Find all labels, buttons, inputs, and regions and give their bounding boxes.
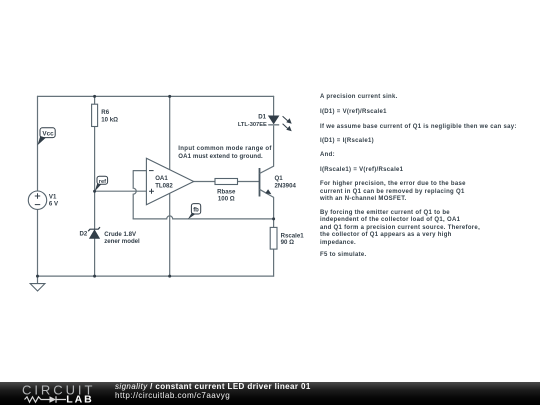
svg-text:TL082: TL082 [155,182,173,189]
svg-text:6 V: 6 V [49,200,59,207]
svg-text:100 Ω: 100 Ω [218,196,235,203]
svg-text:R6: R6 [101,109,109,116]
svg-text:Crude 1.8V: Crude 1.8V [104,231,137,238]
svg-text:Vcc: Vcc [42,130,54,137]
svg-text:V1: V1 [49,193,57,200]
svg-text:OA1: OA1 [155,175,168,182]
svg-text:D1: D1 [258,114,266,121]
svg-text:10 kΩ: 10 kΩ [101,117,118,124]
svg-text:LAB: LAB [66,394,94,405]
svg-text:fb: fb [193,207,199,213]
svg-text:LTL-307EE: LTL-307EE [238,122,267,128]
svg-text:Q1: Q1 [275,175,284,182]
svg-text:D2: D2 [80,230,88,237]
svg-text:Input common mode range of: Input common mode range of [178,145,272,152]
svg-text:zener model: zener model [104,238,140,245]
svg-text:ref: ref [99,179,106,185]
svg-text:90 Ω: 90 Ω [281,239,294,246]
svg-text:2N3904: 2N3904 [275,182,297,189]
svg-text:Rbase: Rbase [217,188,236,195]
svg-text:OA1 must extend to ground.: OA1 must extend to ground. [178,153,263,160]
